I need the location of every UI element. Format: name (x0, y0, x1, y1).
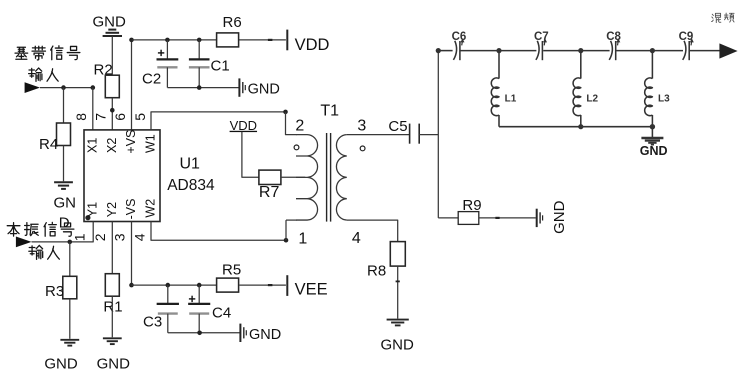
transformer T1 core (326, 133, 328, 222)
resistor R5 (217, 278, 239, 292)
svg-text:3: 3 (111, 233, 127, 241)
svg-text:X2: X2 (105, 138, 119, 153)
svg-text:7: 7 (93, 113, 109, 121)
IC U1 AD834 body (84, 130, 160, 222)
svg-text:Y2: Y2 (105, 202, 119, 217)
svg-text:R4: R4 (39, 136, 58, 153)
svg-text:6: 6 (112, 113, 128, 121)
wire: Y1 pin 1 to LO input (32, 222, 94, 242)
capacitor C6 (453, 41, 456, 60)
terminal VDD (bar) (286, 30, 288, 51)
svg-text:-VS: -VS (124, 199, 138, 220)
svg-text:L2: L2 (586, 94, 598, 105)
svg-text:GND: GND (248, 81, 280, 97)
inductor L3 (651, 51, 653, 79)
wire: baseband input net to X1 (40, 87, 93, 89)
wire: IF node vertical (437, 51, 439, 218)
capacitor C9 (683, 41, 686, 60)
resistor R3 (63, 276, 77, 299)
svg-text:R9: R9 (462, 197, 481, 214)
wire: R3 top lead (69, 242, 71, 276)
ground (right of R9, sideways) (536, 209, 538, 227)
resistor R6 (217, 33, 239, 47)
svg-text:VDD: VDD (230, 118, 257, 133)
svg-text:R5: R5 (222, 261, 241, 278)
node: top of L2 (578, 48, 583, 53)
svg-text:C6: C6 (452, 31, 467, 43)
wire: VDD to R7 (242, 132, 259, 178)
svg-text:C7: C7 (534, 31, 549, 43)
node: L2 bottom (578, 124, 583, 129)
transformer T1 primary winding (296, 135, 318, 220)
wire: T1 secondary 4 to R8 (347, 220, 398, 242)
wire: R4 top lead (63, 88, 65, 123)
svg-text:GND: GND (640, 144, 668, 158)
svg-text:C1: C1 (211, 58, 230, 75)
wire: R2 to pin 7 X2 (111, 98, 113, 130)
node: C4 tap (197, 283, 202, 288)
node: junction at T1 pin 1 (284, 238, 289, 243)
node: junction at T1 pin 2 wire (283, 110, 288, 115)
capacitor C7 (536, 41, 539, 60)
node: junction LO/R3 (68, 240, 73, 245)
capacitor C5 (409, 124, 411, 144)
svg-text:2: 2 (295, 118, 304, 135)
output arrow (mixer IF out) (719, 43, 737, 58)
wire: filter bottom rail (499, 126, 652, 128)
ground symbol (top, above R2) (108, 29, 116, 31)
wire: negative supply rail (132, 284, 217, 286)
wire: down to T1 primary terminal 2 (286, 112, 297, 135)
svg-text:R6: R6 (223, 14, 242, 31)
T1 secondary phase dot (360, 146, 365, 151)
inductor L1 (498, 51, 500, 79)
node: junction on X2 column (110, 108, 115, 113)
capacitor C1 (198, 40, 200, 60)
net label 输入 (input) for baseband (29, 68, 42, 81)
wire: filter main rail (438, 50, 452, 52)
svg-text:5: 5 (132, 113, 148, 121)
svg-text:AD834: AD834 (167, 177, 215, 194)
capacitor C2 (polarized) (166, 40, 168, 60)
capacitor C4 (polarized) (198, 285, 200, 304)
capacitor C3 (167, 285, 169, 304)
wire: R8 to ground (397, 266, 399, 319)
resistor R2 (105, 75, 119, 98)
svg-text:T1: T1 (320, 102, 339, 119)
svg-text:U1: U1 (180, 155, 201, 172)
svg-text:C5: C5 (388, 118, 407, 135)
svg-text:4: 4 (352, 230, 361, 247)
svg-text:C9: C9 (679, 31, 694, 43)
wire: T1 secondary 3 to C5 (347, 134, 410, 136)
resistor R7 (259, 170, 281, 184)
svg-text:R3: R3 (45, 283, 64, 300)
wire: pin 8 X1 column (92, 88, 94, 130)
ground (right of C1, sideways) (238, 78, 240, 96)
svg-text:GND: GND (97, 356, 131, 372)
svg-text:C2: C2 (142, 71, 161, 88)
ground (below L3, heavy) (641, 137, 663, 139)
svg-text:GND: GND (381, 337, 415, 354)
wire: to R9 (438, 217, 458, 219)
svg-text:+VS: +VS (124, 130, 138, 154)
node: C4 bottom junction (197, 331, 202, 336)
node: top of L3 (650, 48, 655, 53)
svg-text:VDD: VDD (295, 36, 330, 54)
svg-text:C3: C3 (143, 314, 162, 331)
node: C1 bottom junction (197, 85, 202, 90)
svg-text:R7: R7 (259, 184, 280, 201)
ground (right of C4, sideways) (239, 324, 241, 342)
svg-text:2: 2 (92, 233, 108, 241)
transformer T1 secondary winding (336, 135, 346, 220)
svg-text:GND: GND (249, 327, 281, 343)
node: top of L1 (496, 48, 501, 53)
resistor R8 (390, 242, 405, 267)
wire: C2/C1 ground rail (167, 87, 238, 89)
svg-text:R1: R1 (103, 299, 122, 316)
svg-text:R2: R2 (94, 62, 113, 79)
svg-text:GND: GND (44, 356, 78, 372)
wire: R1 to ground (111, 296, 113, 337)
resistor R1 (105, 274, 119, 297)
net label 本振信号 (LO signal) (7, 223, 20, 236)
wire: positive supply rail (top) (132, 39, 217, 41)
T1 primary phase dot (294, 145, 299, 150)
input arrow (local oscillator) (16, 237, 32, 248)
node: C2 tap on +rail (165, 38, 170, 43)
node: junction baseband/X1 pin 8 (91, 85, 96, 90)
ground (below R4) (54, 181, 73, 183)
svg-text:C4: C4 (212, 305, 231, 322)
wire: W2 pin 4 to T1 primary bottom (151, 222, 286, 241)
wire: R9 to ground (479, 217, 536, 219)
node: C1 tap on +rail (197, 38, 202, 43)
svg-text:L3: L3 (658, 94, 670, 105)
wire: R6 to VDD terminal (268, 39, 273, 41)
resistor R9 (458, 212, 479, 225)
svg-text:GND: GND (551, 200, 568, 234)
net label 输入 (input) for LO (29, 245, 43, 259)
wire: ground to R2 (111, 36, 113, 75)
input arrow (baseband) (25, 82, 40, 93)
node: -VS rail tap (129, 283, 134, 288)
terminal VEE (bar) (286, 275, 288, 296)
resistor R4 (57, 123, 71, 146)
svg-text:R8: R8 (367, 263, 386, 280)
svg-text:3: 3 (357, 118, 366, 135)
svg-text:VEE: VEE (295, 281, 328, 299)
wire: C3/C4 ground rail (168, 332, 240, 334)
wire: up to T1 primary terminal 1 (285, 220, 287, 240)
net label 基带信号 (baseband signal) (15, 47, 28, 59)
ground (below R1) (103, 337, 122, 339)
wire: R3 to ground (69, 299, 71, 339)
title 混频 (mixing) (712, 13, 721, 22)
svg-text:1: 1 (298, 231, 307, 248)
wire: to filter ground (651, 127, 653, 137)
inductor L2 (580, 51, 582, 79)
ground (below R3) (60, 339, 79, 341)
wire: R7 to T1 center tap (281, 176, 305, 178)
wire: Y2 pin 2 to R1 (111, 222, 113, 274)
ground (below R8) (387, 319, 409, 321)
wire: C5 to IF node (419, 134, 438, 136)
svg-text:8: 8 (73, 113, 89, 121)
svg-text:4: 4 (131, 233, 147, 241)
svg-text:GN: GN (54, 195, 77, 212)
wire: R4 bottom lead (63, 146, 65, 182)
node: junction baseband/R4 (61, 85, 66, 90)
svg-text:W1: W1 (144, 134, 158, 153)
node: C3 tap (166, 283, 171, 288)
capacitor C8 (609, 41, 612, 60)
svg-text:Y1: Y1 (85, 202, 99, 217)
node: L3 bottom / ground tap (650, 124, 655, 129)
svg-text:W2: W2 (144, 199, 158, 218)
svg-text:GND: GND (93, 13, 127, 30)
node: +VS rail tap (129, 38, 134, 43)
svg-text:1: 1 (72, 233, 88, 241)
svg-text:L1: L1 (505, 94, 517, 105)
wire: W1 pin 5 to T1 primary top (151, 112, 286, 130)
wire: pin 6 +VS column (131, 40, 133, 130)
wire: -VS pin 3 column (131, 222, 133, 286)
IC pin-1 indicator dot (85, 215, 90, 220)
node: IF junction to filter (436, 48, 441, 53)
svg-text:C8: C8 (606, 31, 621, 43)
svg-text:X1: X1 (85, 138, 99, 153)
